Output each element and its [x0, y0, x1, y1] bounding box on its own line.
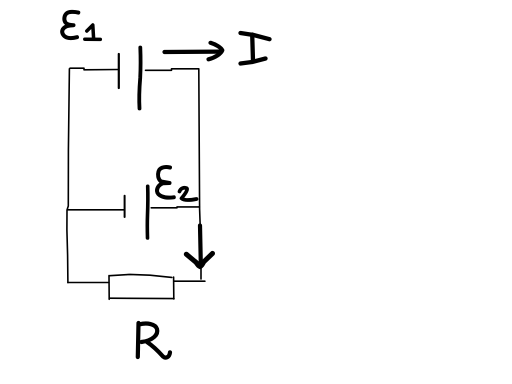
label E2 [157, 167, 197, 200]
battery B1 positive plate [139, 48, 140, 109]
label R [138, 323, 170, 358]
resistor R box [109, 274, 174, 299]
battery B1 negative plate [118, 54, 120, 88]
wire top-right [146, 69, 199, 71]
current arrow I (top) [165, 43, 223, 60]
wire bottom-right [174, 280, 205, 282]
wire top-left [70, 68, 119, 70]
label E1 [62, 12, 100, 40]
wire middle-right [151, 206, 199, 209]
label I [241, 33, 270, 64]
wire right [199, 69, 201, 279]
current arrow down [186, 226, 212, 267]
wire left [67, 69, 70, 283]
battery B2 negative plate [124, 196, 126, 217]
wire middle-left [67, 209, 124, 211]
battery B2 positive plate [146, 186, 150, 238]
wire bottom-left [68, 282, 109, 284]
